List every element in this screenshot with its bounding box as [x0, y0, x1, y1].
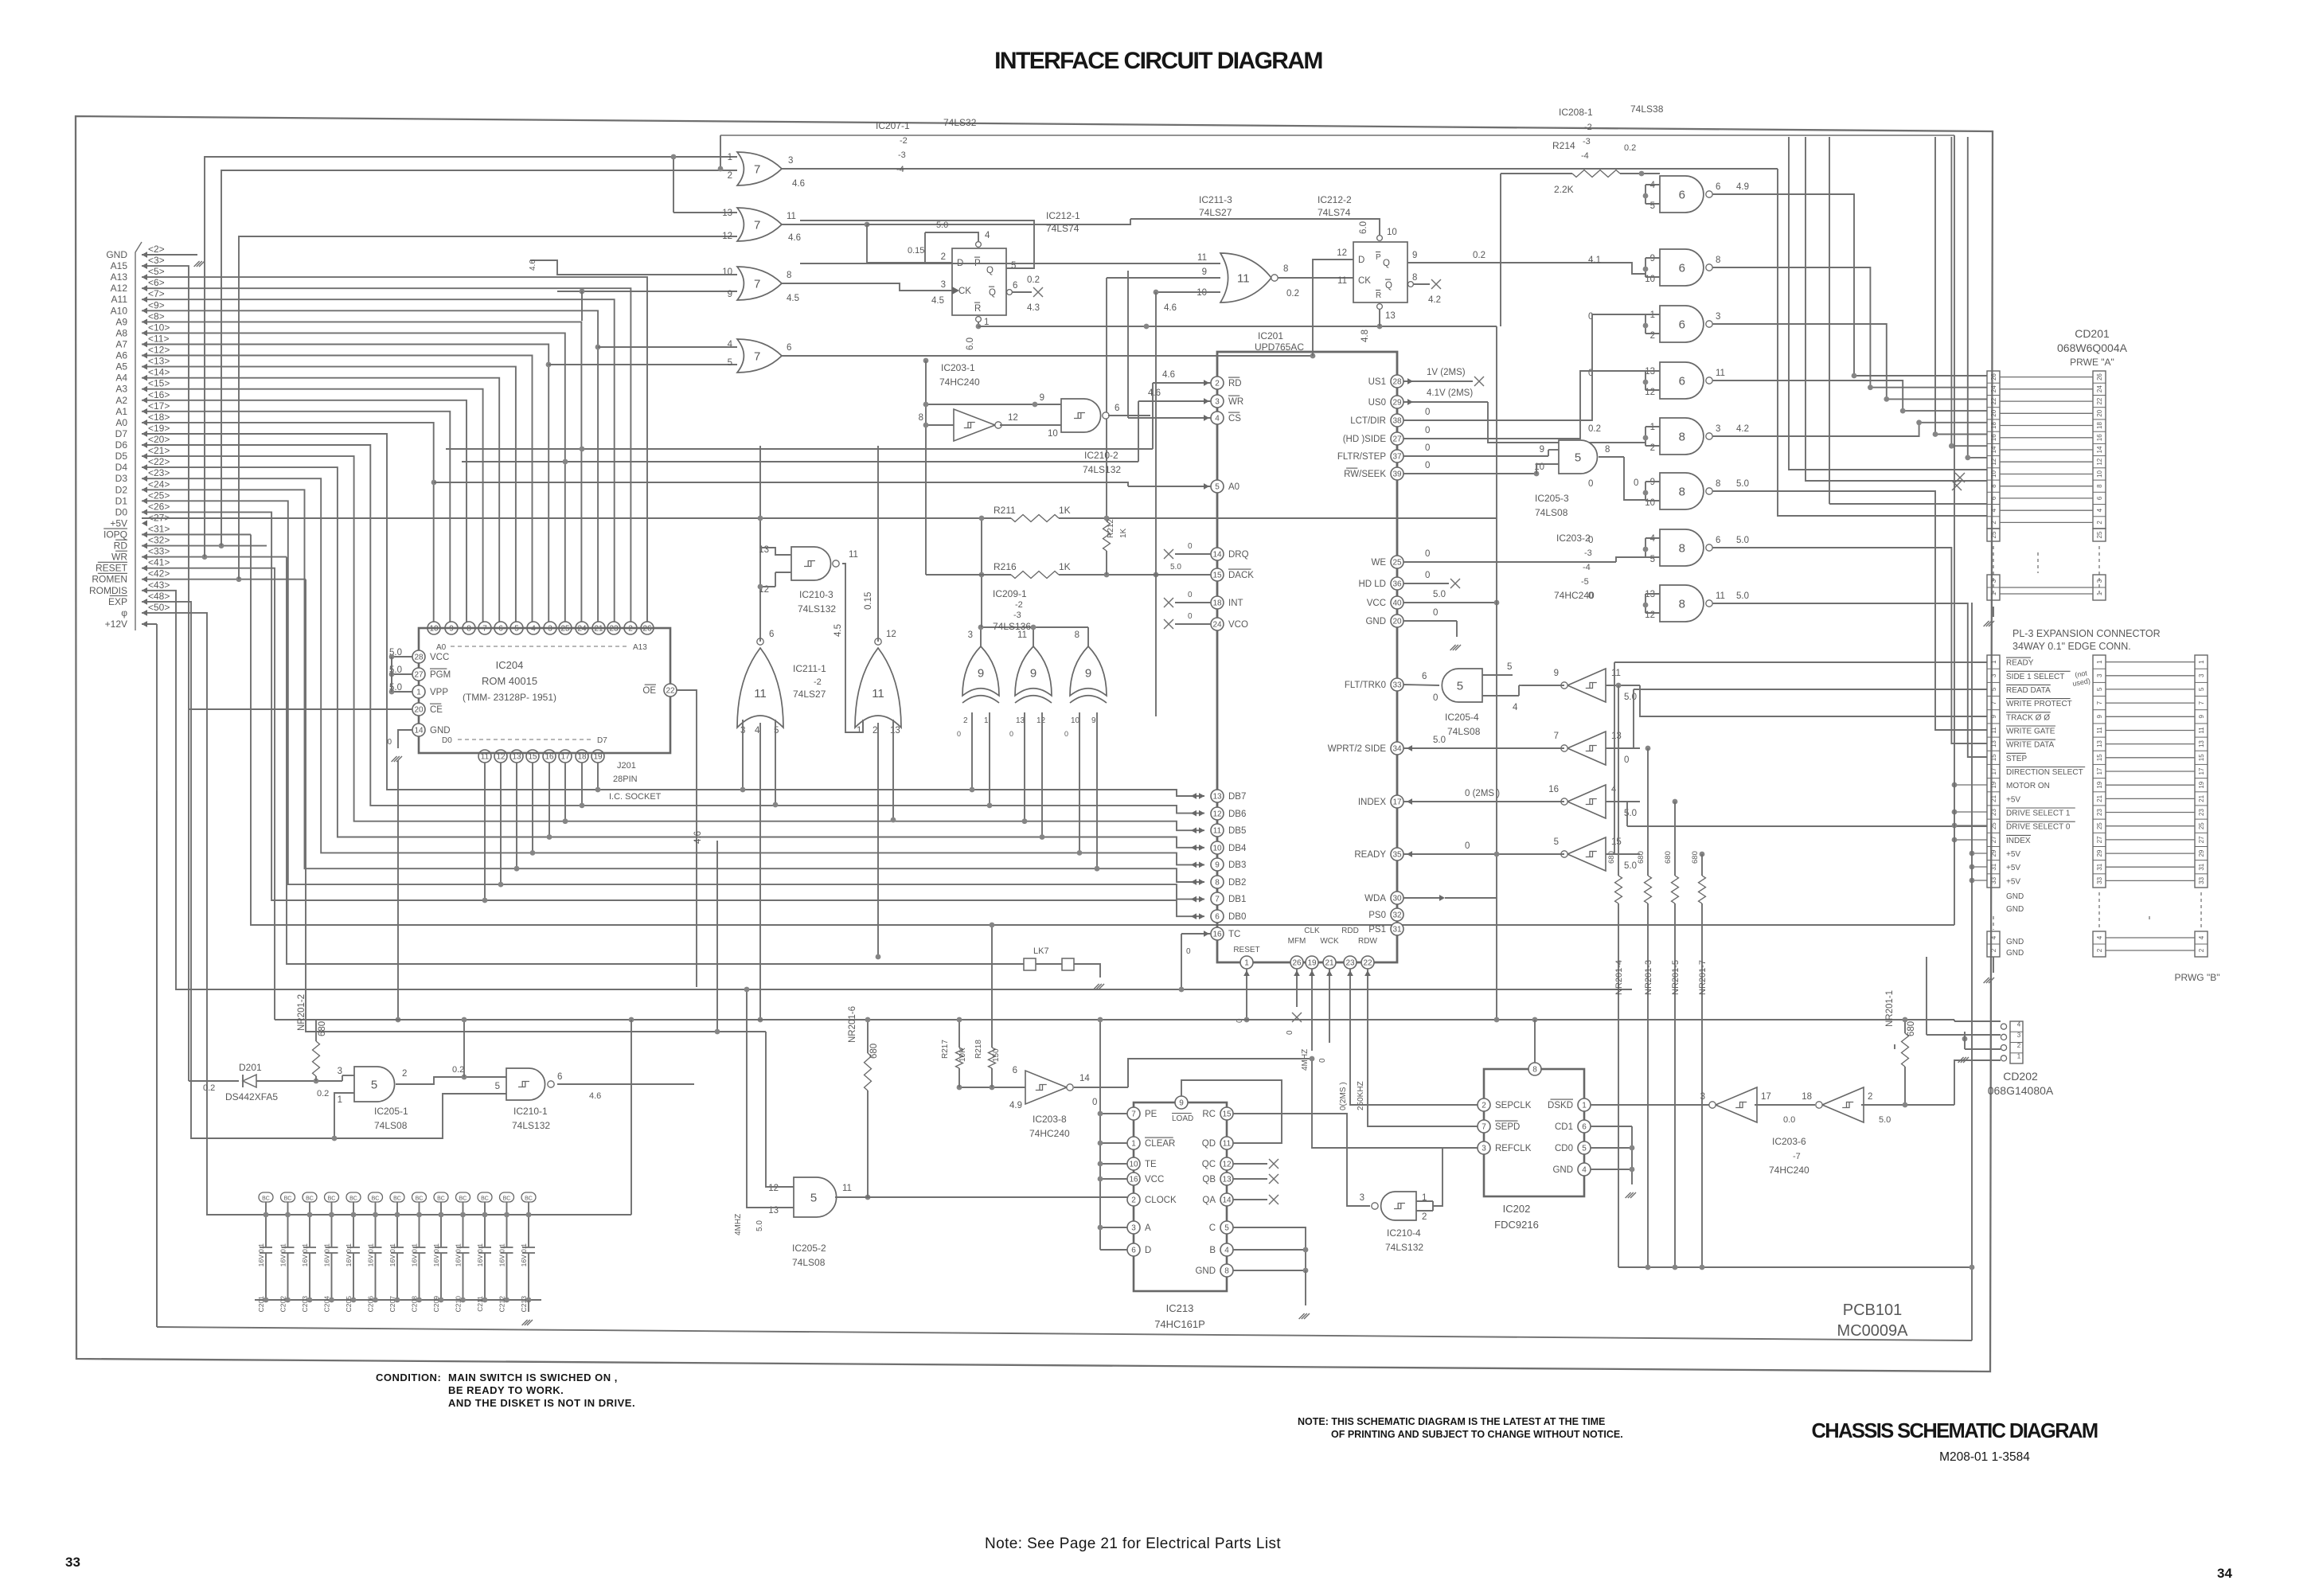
- svg-text:19: 19: [1990, 781, 1997, 788]
- svg-text:GND: GND: [430, 726, 451, 736]
- svg-text:6: 6: [1679, 318, 1685, 331]
- svg-text:QC: QC: [1202, 1160, 1216, 1169]
- svg-text:0.2: 0.2: [203, 1083, 215, 1093]
- svg-text:A3: A3: [115, 384, 127, 395]
- svg-text:DB3: DB3: [1228, 860, 1246, 870]
- svg-text:6: 6: [1679, 374, 1685, 388]
- svg-text:RW/SEEK: RW/SEEK: [1344, 470, 1386, 479]
- svg-text:18: 18: [2096, 422, 2103, 429]
- svg-text:12: 12: [1212, 810, 1222, 819]
- svg-text:GND: GND: [1365, 617, 1386, 626]
- svg-text:14: 14: [1990, 446, 1997, 453]
- svg-text:<43>: <43>: [148, 579, 170, 591]
- svg-text:2: 2: [1650, 443, 1655, 453]
- svg-text:0(2MS ): 0(2MS ): [1339, 1082, 1348, 1110]
- svg-text:-3: -3: [898, 150, 906, 160]
- svg-text:-2: -2: [1015, 600, 1023, 610]
- svg-text:9: 9: [1540, 445, 1544, 455]
- svg-text:11: 11: [842, 1184, 852, 1193]
- svg-text:20: 20: [414, 706, 424, 715]
- svg-text:PE: PE: [1145, 1110, 1157, 1119]
- svg-text:OF PRINTING AND SUBJECT TO CHA: OF PRINTING AND SUBJECT TO CHANGE WITHOU…: [1331, 1429, 1623, 1440]
- svg-text:74HC161P: 74HC161P: [1154, 1318, 1205, 1330]
- svg-text:13: 13: [1212, 793, 1222, 802]
- svg-text:BC: BC: [328, 1196, 336, 1202]
- svg-text:16V 0.1: 16V 0.1: [455, 1243, 463, 1267]
- svg-text:74LS27: 74LS27: [793, 689, 826, 700]
- svg-text:27: 27: [1392, 435, 1402, 444]
- svg-text:IC212-1: IC212-1: [1046, 210, 1080, 221]
- svg-text:CD1: CD1: [1555, 1122, 1573, 1132]
- svg-text:5.0: 5.0: [1879, 1115, 1891, 1125]
- svg-text:2: 2: [1990, 948, 1997, 952]
- svg-text:9: 9: [978, 666, 984, 680]
- svg-text:2: 2: [1650, 331, 1655, 341]
- svg-text:7: 7: [1131, 1110, 1136, 1119]
- svg-text:7: 7: [754, 162, 760, 176]
- svg-text:74LS132: 74LS132: [798, 603, 836, 615]
- svg-text:33: 33: [2096, 876, 2103, 884]
- svg-text:16: 16: [1212, 931, 1222, 939]
- svg-text:-2: -2: [1584, 123, 1592, 132]
- svg-text:1: 1: [1244, 959, 1249, 968]
- svg-text:4.3: 4.3: [1027, 303, 1040, 313]
- svg-text:27: 27: [1990, 836, 1997, 843]
- svg-text:5: 5: [728, 358, 732, 368]
- svg-text:5.0: 5.0: [1736, 536, 1749, 545]
- svg-text:17: 17: [1990, 767, 1997, 775]
- svg-text:3: 3: [1360, 1193, 1364, 1203]
- svg-text:4.6: 4.6: [1164, 303, 1177, 313]
- svg-text:15: 15: [2198, 754, 2205, 761]
- svg-text:28: 28: [1392, 378, 1402, 387]
- svg-text:FDC9216: FDC9216: [1494, 1219, 1539, 1231]
- svg-text:MC0009A: MC0009A: [1837, 1322, 1909, 1340]
- svg-text:1: 1: [1131, 1140, 1136, 1149]
- svg-text:INDEX: INDEX: [2006, 837, 2031, 845]
- svg-text:DS442XFA5: DS442XFA5: [225, 1091, 278, 1102]
- svg-text:<10>: <10>: [148, 322, 170, 333]
- svg-text:A15: A15: [111, 260, 128, 271]
- svg-text:4.8: 4.8: [1361, 330, 1370, 342]
- svg-text:17: 17: [1761, 1092, 1771, 1102]
- svg-text:WRITE DATA: WRITE DATA: [2006, 741, 2055, 750]
- svg-text:1: 1: [1990, 591, 1997, 595]
- svg-text:74LS132: 74LS132: [1083, 464, 1121, 475]
- svg-text:4.2: 4.2: [1736, 424, 1749, 434]
- svg-text:4.2: 4.2: [1428, 295, 1441, 305]
- svg-text:D3: D3: [115, 473, 128, 484]
- svg-text:13: 13: [1990, 740, 1997, 747]
- svg-text:<42>: <42>: [148, 568, 170, 579]
- svg-text:-3: -3: [1583, 137, 1591, 146]
- svg-text:1V (2MS): 1V (2MS): [1427, 368, 1466, 377]
- svg-text:IC210-3: IC210-3: [799, 589, 833, 600]
- svg-text:36: 36: [1392, 580, 1402, 589]
- svg-text:16V 0.1: 16V 0.1: [476, 1243, 484, 1267]
- svg-text:4: 4: [1990, 935, 1997, 939]
- svg-text:NR201-1: NR201-1: [1885, 990, 1895, 1027]
- svg-text:16: 16: [1548, 785, 1559, 794]
- svg-text:5.0: 5.0: [1736, 591, 1749, 601]
- svg-text:5: 5: [1650, 555, 1655, 564]
- svg-text:24: 24: [2096, 385, 2103, 392]
- svg-text:21: 21: [1990, 794, 1997, 802]
- svg-text:9: 9: [728, 290, 732, 299]
- svg-text:4.6: 4.6: [792, 179, 805, 189]
- svg-text:680: 680: [1664, 851, 1673, 864]
- svg-text:13: 13: [1016, 716, 1025, 725]
- svg-text:068W6Q004A: 068W6Q004A: [2057, 341, 2128, 354]
- svg-text:9: 9: [1412, 251, 1417, 260]
- svg-text:STEP: STEP: [2006, 755, 2027, 763]
- svg-text:NR201-4: NR201-4: [1614, 960, 1624, 995]
- svg-text:4.5: 4.5: [787, 294, 799, 303]
- svg-text:17: 17: [2096, 767, 2103, 775]
- svg-text:2: 2: [1422, 1212, 1427, 1222]
- svg-text:10K: 10K: [958, 1048, 967, 1062]
- svg-text:10: 10: [1197, 288, 1207, 298]
- svg-text:WRITE GATE: WRITE GATE: [2006, 728, 2055, 736]
- svg-text:ROMEN: ROMEN: [92, 574, 127, 585]
- svg-text:15: 15: [1990, 754, 1997, 761]
- svg-text:4: 4: [985, 231, 990, 240]
- svg-text:6: 6: [1131, 1247, 1136, 1255]
- svg-text:<25>: <25>: [148, 490, 170, 501]
- svg-text:74LS08: 74LS08: [374, 1120, 408, 1131]
- svg-text:1: 1: [984, 716, 989, 725]
- svg-text:4.9: 4.9: [1736, 182, 1749, 192]
- svg-text:IC212-2: IC212-2: [1318, 194, 1352, 205]
- svg-text:-3: -3: [1013, 611, 1021, 620]
- svg-text:74HC240: 74HC240: [1769, 1165, 1809, 1176]
- svg-text:3: 3: [1716, 312, 1720, 322]
- svg-text:74LS32: 74LS32: [943, 117, 977, 128]
- svg-text:D6: D6: [115, 439, 128, 451]
- svg-text:IC205-1: IC205-1: [374, 1106, 408, 1117]
- svg-text:0.15: 0.15: [908, 246, 924, 256]
- svg-text:7: 7: [754, 277, 760, 291]
- svg-text:4: 4: [2198, 935, 2205, 939]
- svg-text:INT: INT: [1228, 599, 1243, 608]
- svg-text:8: 8: [2096, 484, 2103, 488]
- svg-text:74HC240: 74HC240: [939, 377, 980, 388]
- svg-text:RESET: RESET: [1233, 946, 1259, 954]
- svg-text:-4: -4: [1583, 563, 1591, 572]
- svg-text:<48>: <48>: [148, 591, 170, 602]
- svg-text:0: 0: [1318, 1058, 1327, 1063]
- svg-text:11: 11: [1213, 827, 1222, 836]
- svg-text:VCO: VCO: [1228, 620, 1248, 630]
- svg-text:GND: GND: [2006, 938, 2024, 946]
- svg-text:74HC240: 74HC240: [1029, 1128, 1070, 1139]
- svg-text:RDD: RDD: [1341, 927, 1359, 935]
- svg-text:35: 35: [1392, 851, 1402, 860]
- svg-text:SEPD: SEPD: [1495, 1122, 1520, 1132]
- svg-text:38: 38: [1392, 417, 1402, 426]
- svg-text:IC208-1: IC208-1: [1559, 107, 1593, 118]
- svg-text:BC: BC: [503, 1196, 511, 1202]
- svg-text:23: 23: [2096, 809, 2103, 816]
- svg-text:RD: RD: [1228, 379, 1242, 388]
- svg-text:D4: D4: [115, 462, 128, 473]
- svg-text:<23>: <23>: [148, 467, 170, 478]
- svg-text:3: 3: [1700, 1092, 1705, 1102]
- svg-text:1: 1: [2017, 1052, 2021, 1059]
- svg-text:4: 4: [2096, 508, 2103, 512]
- svg-text:3: 3: [968, 630, 973, 640]
- svg-text:A5: A5: [115, 361, 127, 373]
- svg-text:17: 17: [2198, 767, 2205, 775]
- svg-text:0.15: 0.15: [864, 592, 873, 610]
- svg-text:DB5: DB5: [1228, 826, 1246, 836]
- svg-text:5: 5: [1457, 679, 1463, 693]
- svg-text:11: 11: [1237, 271, 1250, 285]
- svg-text:0: 0: [1624, 755, 1629, 765]
- svg-text:4.1V (2MS): 4.1V (2MS): [1427, 388, 1473, 398]
- svg-text:READY: READY: [2006, 659, 2034, 668]
- svg-text:6: 6: [1582, 1123, 1587, 1132]
- svg-text:22: 22: [2096, 397, 2103, 404]
- svg-text:8: 8: [1716, 479, 1720, 489]
- svg-text:R: R: [1376, 291, 1381, 300]
- svg-text:CONDITION:: CONDITION:: [376, 1372, 441, 1383]
- svg-text:C202: C202: [279, 1296, 287, 1313]
- svg-text:2: 2: [1215, 380, 1220, 388]
- svg-text:1: 1: [2096, 591, 2103, 595]
- svg-text:0.2: 0.2: [1027, 275, 1040, 285]
- svg-text:10: 10: [1990, 470, 1997, 478]
- svg-text:0.2: 0.2: [1286, 289, 1299, 299]
- svg-text:WDA: WDA: [1364, 894, 1386, 903]
- svg-text:74LS08: 74LS08: [1535, 507, 1568, 518]
- svg-text:A0: A0: [115, 417, 127, 428]
- svg-text:CLEAR: CLEAR: [1145, 1139, 1175, 1149]
- svg-text:0: 0: [1425, 571, 1430, 580]
- svg-text:DRIVE SELECT 1: DRIVE SELECT 1: [2006, 810, 2071, 818]
- svg-text:680: 680: [318, 1021, 327, 1036]
- svg-text:19: 19: [1307, 959, 1317, 968]
- svg-text:<20>: <20>: [148, 434, 170, 445]
- svg-text:PS0: PS0: [1368, 911, 1386, 920]
- svg-text:5: 5: [1554, 837, 1559, 847]
- svg-text:BC: BC: [349, 1196, 357, 1202]
- svg-text:A6: A6: [115, 350, 127, 361]
- svg-text:+5V: +5V: [2006, 864, 2020, 872]
- svg-text:D1: D1: [115, 495, 128, 506]
- svg-text:2: 2: [1868, 1092, 1872, 1102]
- svg-text:1: 1: [857, 726, 861, 736]
- svg-text:0: 0: [1465, 841, 1470, 851]
- svg-text:6: 6: [1215, 913, 1220, 922]
- svg-text:7: 7: [754, 349, 760, 363]
- svg-text:11: 11: [787, 212, 796, 221]
- svg-text:D: D: [1145, 1246, 1151, 1255]
- svg-text:31: 31: [1990, 863, 1997, 870]
- svg-text:11: 11: [2096, 727, 2103, 734]
- svg-text:22: 22: [666, 687, 675, 696]
- svg-text:TRACK Ø Ø: TRACK Ø Ø: [2006, 713, 2050, 722]
- svg-text:0: 0: [1188, 591, 1193, 599]
- svg-text:5.0: 5.0: [1624, 693, 1637, 702]
- svg-text:1: 1: [1990, 660, 1997, 664]
- svg-text:74LS136: 74LS136: [993, 621, 1031, 632]
- svg-text:IC203-8: IC203-8: [1033, 1114, 1067, 1125]
- svg-text:IOPQ: IOPQ: [103, 529, 127, 540]
- svg-text:WCK: WCK: [1320, 937, 1339, 946]
- svg-text:3: 3: [788, 156, 793, 166]
- svg-text:8: 8: [1679, 597, 1685, 611]
- svg-text:5.0: 5.0: [936, 220, 948, 230]
- svg-text:IC211-1: IC211-1: [793, 663, 826, 674]
- svg-text:16V 0.1: 16V 0.1: [345, 1243, 353, 1267]
- svg-text:RESET: RESET: [96, 563, 128, 574]
- svg-text:TC: TC: [1228, 930, 1240, 939]
- svg-text:BC: BC: [416, 1196, 424, 1202]
- svg-text:DB4: DB4: [1228, 844, 1247, 853]
- svg-text:IC205-3: IC205-3: [1535, 493, 1569, 504]
- svg-text:13: 13: [722, 209, 732, 218]
- svg-text:2: 2: [941, 252, 946, 262]
- svg-text:16V 0.1: 16V 0.1: [367, 1243, 375, 1267]
- svg-text:7: 7: [2096, 700, 2103, 704]
- svg-text:RC: RC: [1202, 1110, 1216, 1119]
- svg-text:8: 8: [1215, 879, 1220, 888]
- svg-text:US0: US0: [1368, 398, 1386, 408]
- svg-text:<50>: <50>: [148, 602, 170, 613]
- svg-text:C210: C210: [455, 1296, 463, 1313]
- svg-text:IC203-1: IC203-1: [941, 362, 975, 373]
- svg-text:2: 2: [2198, 948, 2205, 952]
- svg-text:7: 7: [754, 218, 760, 232]
- svg-text:3: 3: [1990, 579, 1997, 583]
- svg-text:DACK: DACK: [1228, 571, 1254, 580]
- svg-text:3: 3: [2096, 673, 2103, 677]
- svg-text:15: 15: [1222, 1110, 1232, 1119]
- svg-text:11: 11: [1197, 253, 1207, 263]
- svg-text:6: 6: [1115, 404, 1119, 413]
- svg-text:5: 5: [1507, 662, 1512, 672]
- svg-text:19: 19: [2198, 781, 2205, 788]
- svg-text:5.0: 5.0: [1170, 563, 1181, 572]
- svg-text:Q: Q: [1383, 259, 1390, 268]
- svg-text:<2>: <2>: [148, 244, 165, 255]
- svg-text:IC210-2: IC210-2: [1084, 450, 1118, 461]
- svg-text:3: 3: [2096, 579, 2103, 583]
- svg-text:10: 10: [722, 267, 732, 277]
- svg-text:12: 12: [1645, 611, 1655, 620]
- svg-text:3: 3: [941, 280, 946, 290]
- svg-text:DIRECTION SELECT: DIRECTION SELECT: [2006, 768, 2083, 777]
- svg-text:(TMM- 23128P- 1951): (TMM- 23128P- 1951): [463, 692, 556, 703]
- svg-text:C201: C201: [257, 1296, 265, 1313]
- svg-text:<13>: <13>: [148, 356, 170, 367]
- svg-text:13: 13: [2198, 740, 2205, 747]
- svg-text:6: 6: [1990, 496, 1997, 500]
- svg-text:1: 1: [1582, 1102, 1587, 1110]
- svg-text:0: 0: [1425, 549, 1430, 559]
- svg-text:C203: C203: [301, 1296, 309, 1313]
- svg-text:5: 5: [1011, 261, 1016, 271]
- svg-text:A8: A8: [115, 327, 127, 338]
- svg-text:MAIN SWITCH IS SWICHED ON ,: MAIN SWITCH IS SWICHED ON ,: [448, 1372, 618, 1383]
- svg-text:2: 2: [402, 1069, 407, 1079]
- svg-text:NOTE: THIS SCHEMATIC DIAGRAM I: NOTE: THIS SCHEMATIC DIAGRAM IS THE LATE…: [1298, 1416, 1605, 1427]
- svg-text:IC207-1: IC207-1: [876, 120, 910, 131]
- svg-text:8: 8: [1605, 445, 1610, 455]
- svg-text:<11>: <11>: [148, 334, 169, 345]
- svg-text:-7: -7: [1793, 1152, 1801, 1161]
- svg-text:10: 10: [1645, 498, 1655, 508]
- svg-text:14: 14: [2096, 446, 2103, 453]
- svg-text:10: 10: [1129, 1161, 1138, 1169]
- svg-text:4: 4: [1582, 1166, 1587, 1175]
- svg-text:IC204: IC204: [496, 659, 524, 671]
- svg-text:FLT/TRK0: FLT/TRK0: [1345, 681, 1386, 690]
- svg-text:IC210-1: IC210-1: [513, 1106, 548, 1117]
- svg-text:5: 5: [1650, 201, 1655, 211]
- svg-text:4.6: 4.6: [589, 1091, 601, 1101]
- svg-text:CE: CE: [430, 705, 443, 715]
- svg-text:0: 0: [1009, 730, 1013, 738]
- svg-text:2: 2: [728, 171, 732, 181]
- svg-text:<31>: <31>: [148, 524, 170, 535]
- svg-text:5: 5: [1575, 451, 1581, 464]
- svg-text:29: 29: [1392, 399, 1402, 408]
- svg-text:TE: TE: [1145, 1160, 1157, 1169]
- svg-text:25: 25: [2096, 531, 2103, 538]
- svg-text:31: 31: [2096, 863, 2103, 870]
- svg-text:A9: A9: [115, 316, 127, 327]
- svg-text:16V 0.1: 16V 0.1: [498, 1243, 506, 1267]
- svg-text:BC: BC: [372, 1196, 380, 1202]
- svg-text:32: 32: [1392, 911, 1402, 920]
- svg-text:2: 2: [1482, 1102, 1486, 1110]
- svg-text:11: 11: [872, 687, 884, 700]
- svg-text:<21>: <21>: [148, 445, 170, 456]
- svg-text:DB6: DB6: [1228, 810, 1246, 819]
- svg-text:16V 0.1: 16V 0.1: [323, 1243, 331, 1267]
- svg-text:6: 6: [1013, 281, 1017, 291]
- svg-text:WR: WR: [111, 552, 127, 563]
- svg-text:D0: D0: [442, 736, 452, 745]
- svg-text:9: 9: [1085, 666, 1091, 680]
- svg-text:0: 0: [1092, 1098, 1097, 1107]
- svg-text:26: 26: [2096, 373, 2103, 380]
- svg-text:25: 25: [2096, 822, 2103, 829]
- svg-text:I.C. SOCKET: I.C. SOCKET: [609, 792, 662, 802]
- svg-text:12: 12: [1036, 716, 1046, 725]
- svg-text:0: 0: [1425, 426, 1430, 435]
- svg-text:PL-3 EXPANSION CONNECTOR: PL-3 EXPANSION CONNECTOR: [2012, 628, 2161, 639]
- svg-text:7: 7: [1482, 1123, 1486, 1132]
- svg-text:IC201: IC201: [1258, 330, 1283, 341]
- svg-text:1K: 1K: [1119, 528, 1128, 538]
- svg-text:D5: D5: [115, 451, 128, 462]
- svg-text:GND: GND: [1552, 1165, 1573, 1175]
- svg-text:<26>: <26>: [148, 501, 170, 512]
- svg-text:680: 680: [1637, 851, 1645, 864]
- svg-text:14: 14: [1079, 1074, 1090, 1083]
- svg-text:AND THE DISKET IS NOT IN DRIV: AND THE DISKET IS NOT IN DRIVE.: [448, 1397, 635, 1409]
- svg-text:PCB101: PCB101: [1843, 1301, 1903, 1319]
- svg-text:4: 4: [1513, 703, 1518, 712]
- svg-text:3: 3: [2017, 1032, 2021, 1039]
- svg-text:DB7: DB7: [1228, 792, 1246, 802]
- svg-text:40: 40: [1392, 599, 1402, 608]
- svg-text:CHASSIS SCHEMATIC DIAGRAM: CHASSIS SCHEMATIC DIAGRAM: [1811, 1420, 2097, 1442]
- svg-text:GND: GND: [1195, 1266, 1216, 1276]
